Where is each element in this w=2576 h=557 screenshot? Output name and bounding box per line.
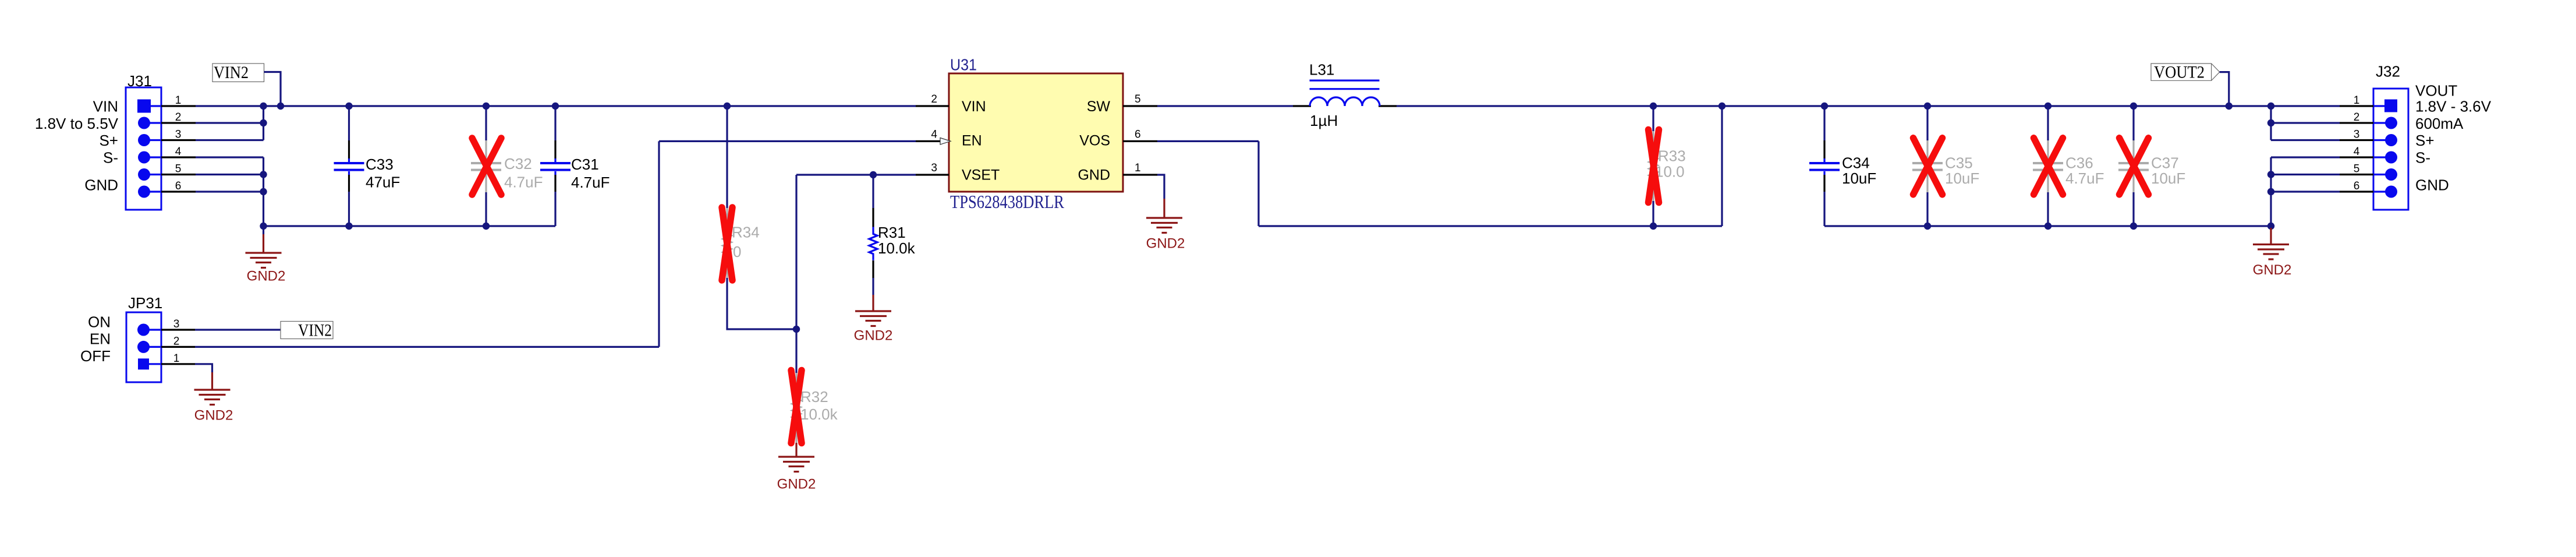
resistor R32 (DNP) bbox=[792, 373, 800, 443]
wire VOUT2 tap bbox=[2220, 72, 2229, 106]
capacitor C36 (DNP) bbox=[2033, 140, 2063, 192]
wire output ground rail bbox=[1824, 225, 2271, 227]
wire C31 bottom bbox=[554, 192, 556, 226]
svg-text:GND2: GND2 bbox=[2253, 262, 2292, 278]
junction C34 top bbox=[1821, 103, 1828, 110]
wire C34 top bbox=[1823, 106, 1825, 140]
wire R31 top bbox=[872, 175, 874, 208]
svg-text:10uF: 10uF bbox=[1945, 170, 1979, 187]
svg-text:OFF: OFF bbox=[80, 347, 111, 365]
ground GND2 (U31) bbox=[1146, 199, 1182, 233]
svg-text:6: 6 bbox=[2354, 180, 2360, 192]
connector J32 bbox=[2340, 89, 2408, 210]
junction C36 top bbox=[2044, 103, 2051, 110]
ground GND2 (R31) bbox=[855, 295, 891, 326]
svg-text:600mA: 600mA bbox=[2415, 115, 2464, 132]
wire J32 pin5 bbox=[2271, 174, 2340, 175]
svg-text:L31: L31 bbox=[1309, 61, 1334, 79]
wire J31 pins 1-2-3 tie bbox=[263, 106, 264, 140]
inductor L31 bbox=[1293, 80, 1397, 106]
wire VSET to U31 bbox=[796, 174, 916, 175]
net label VIN2 (at JP31) bbox=[281, 321, 333, 340]
svg-text:VSET: VSET bbox=[962, 167, 1000, 184]
wire J32 pin6 bbox=[2271, 191, 2340, 192]
resistor R34 (DNP) bbox=[723, 208, 731, 278]
net label VOUT2 bbox=[2151, 63, 2220, 82]
svg-text:GND2: GND2 bbox=[247, 269, 286, 284]
svg-text:4: 4 bbox=[931, 128, 937, 140]
junction C37 top bbox=[2130, 103, 2137, 110]
svg-text:2: 2 bbox=[931, 93, 937, 105]
svg-text:JP31: JP31 bbox=[128, 294, 162, 312]
J31 pin numbers bbox=[175, 94, 182, 192]
DNP cross C35 bbox=[1914, 138, 1943, 195]
svg-text:S-: S- bbox=[103, 149, 118, 167]
capacitor C37 (DNP) bbox=[2118, 140, 2149, 192]
svg-text:5: 5 bbox=[2354, 163, 2360, 175]
junction J31 pin2 tie bbox=[260, 119, 267, 126]
svg-text:GND: GND bbox=[2415, 177, 2449, 194]
junction C36 bottom bbox=[2044, 223, 2051, 230]
svg-text:C37: C37 bbox=[2151, 154, 2179, 172]
wire R32 top bbox=[795, 329, 797, 373]
junction C35 bottom bbox=[1924, 223, 1931, 230]
svg-text:4.7uF: 4.7uF bbox=[2065, 170, 2104, 187]
svg-text:2: 2 bbox=[2354, 111, 2360, 124]
junction C32 top bbox=[483, 103, 490, 110]
junction J32 pin2 tie bbox=[2267, 119, 2274, 126]
svg-text:6: 6 bbox=[175, 180, 182, 192]
svg-text:S-: S- bbox=[2415, 149, 2430, 167]
svg-text:2: 2 bbox=[175, 111, 182, 124]
junction J32 pin6 tie bbox=[2267, 188, 2274, 195]
J32 pin labels bbox=[2415, 82, 2492, 194]
svg-text:SW: SW bbox=[1087, 98, 1111, 115]
svg-text:EN: EN bbox=[90, 330, 111, 348]
DNP cross C32 bbox=[472, 138, 501, 195]
junction J32 tie at rail bbox=[2267, 103, 2274, 110]
ground GND2 (J32) bbox=[2253, 228, 2289, 259]
wire C36 top bbox=[2047, 106, 2049, 140]
connector J31 bbox=[126, 87, 196, 210]
wire J31 pin3 bbox=[196, 139, 264, 141]
wire C36 bottom bbox=[2047, 192, 2049, 226]
wire VIN rail bbox=[196, 105, 916, 107]
svg-text:GND: GND bbox=[84, 177, 118, 194]
DNP cross R32 bbox=[791, 371, 802, 443]
wire J32 pin3 bbox=[2271, 139, 2340, 141]
svg-text:6: 6 bbox=[1135, 128, 1141, 140]
wire J32 pin4 bbox=[2271, 156, 2340, 158]
svg-text:VIN2: VIN2 bbox=[298, 321, 332, 340]
svg-text:3: 3 bbox=[173, 318, 180, 330]
svg-text:U31: U31 bbox=[950, 56, 977, 74]
wire J31 pin4 bbox=[196, 156, 264, 158]
DNP cross R33 bbox=[1649, 130, 1659, 203]
wire VIN2 label tap bbox=[264, 72, 281, 107]
wire C34 bottom bbox=[1823, 192, 1825, 226]
svg-text:C31: C31 bbox=[571, 156, 599, 173]
wire C31 top bbox=[554, 106, 556, 140]
svg-text:47uF: 47uF bbox=[366, 174, 400, 191]
wire J31 pin6 bbox=[196, 191, 264, 192]
JP31 pin labels bbox=[80, 313, 111, 365]
junction input ground at J31 bbox=[260, 223, 267, 230]
net label VIN2 (input) bbox=[212, 63, 264, 82]
svg-text:1µH: 1µH bbox=[1310, 112, 1338, 129]
svg-text:ON: ON bbox=[88, 313, 111, 331]
svg-text:4: 4 bbox=[2354, 146, 2360, 158]
svg-text:GND2: GND2 bbox=[777, 477, 816, 492]
wire EN net horizontal bbox=[195, 346, 659, 348]
svg-text:3: 3 bbox=[175, 129, 182, 141]
svg-text:EN: EN bbox=[962, 133, 982, 149]
JP31 pin numbers bbox=[173, 318, 180, 365]
svg-text:C36: C36 bbox=[2065, 154, 2093, 172]
junction VSET / R34 / R32 bbox=[793, 326, 800, 333]
junction R31 top bbox=[870, 171, 877, 178]
capacitor C33 bbox=[334, 140, 364, 192]
wire JP31 pin1 to ground bbox=[195, 364, 212, 372]
ground GND2 (JP31) bbox=[194, 372, 231, 405]
wire VOUT rail bbox=[1397, 105, 2340, 107]
wire J32 pin2 bbox=[2271, 122, 2340, 124]
wire VOS rail bbox=[1259, 225, 1722, 227]
wire J32 pins 1-2-3 tie bbox=[2270, 106, 2272, 140]
svg-text:1: 1 bbox=[173, 352, 180, 365]
junction VOUT2 tap bbox=[2226, 103, 2233, 110]
wire VOS sense up bbox=[1721, 106, 1723, 226]
svg-text:10.0k: 10.0k bbox=[800, 406, 838, 423]
junction R33 top bbox=[1650, 103, 1657, 110]
svg-text:10.0: 10.0 bbox=[1655, 163, 1685, 181]
svg-text:10uF: 10uF bbox=[2151, 170, 2185, 187]
DNP cross C37 bbox=[2120, 138, 2149, 195]
svg-text:4: 4 bbox=[175, 146, 182, 158]
U31 pin numbers bbox=[931, 93, 1140, 174]
junction J31 pin5 tie bbox=[260, 171, 267, 178]
svg-text:R32: R32 bbox=[800, 388, 828, 406]
svg-text:0: 0 bbox=[733, 243, 741, 260]
svg-text:3: 3 bbox=[2354, 129, 2360, 141]
svg-text:3: 3 bbox=[931, 162, 937, 174]
wire C32 bottom bbox=[485, 192, 487, 226]
wire U31 GND pin bbox=[1157, 175, 1164, 199]
svg-text:J32: J32 bbox=[2376, 63, 2400, 80]
junction C32 bottom bbox=[483, 223, 490, 230]
capacitor C32 (DNP) bbox=[471, 140, 501, 192]
wire VOS from U31 bbox=[1157, 140, 1259, 142]
wire R34 top bbox=[726, 106, 728, 208]
U31 pin stubs bbox=[916, 106, 1157, 175]
junction C33 top bbox=[345, 103, 352, 110]
wire EN net vertical bbox=[658, 141, 660, 347]
svg-text:TPS628438DRLR: TPS628438DRLR bbox=[950, 191, 1065, 212]
svg-text:VOS: VOS bbox=[1079, 133, 1110, 149]
svg-text:R34: R34 bbox=[732, 224, 760, 241]
svg-text:GND: GND bbox=[1078, 167, 1110, 184]
svg-text:1: 1 bbox=[1135, 162, 1141, 174]
wire R34 bottom bbox=[727, 278, 796, 329]
junction J31 pin6 tie bbox=[260, 188, 267, 195]
svg-text:VIN: VIN bbox=[962, 98, 986, 115]
svg-text:J31: J31 bbox=[127, 72, 152, 90]
svg-text:10.0k: 10.0k bbox=[878, 239, 916, 257]
wire J31 pin5 bbox=[196, 174, 264, 175]
svg-text:C34: C34 bbox=[1842, 154, 1870, 172]
wire VOS vertical bbox=[1257, 141, 1259, 226]
DNP cross C36 bbox=[2034, 138, 2063, 195]
svg-text:GND2: GND2 bbox=[1146, 236, 1185, 252]
wire JP31 pin3 to VIN2 bbox=[195, 329, 281, 330]
junction R34 top bbox=[724, 103, 731, 110]
wire C35 bottom bbox=[1926, 192, 1928, 226]
svg-text:R33: R33 bbox=[1658, 147, 1686, 165]
svg-text:10uF: 10uF bbox=[1842, 170, 1876, 187]
J32 pin numbers bbox=[2354, 94, 2360, 192]
wire EN net to U31 bbox=[659, 140, 916, 142]
wire VSET vertical bbox=[795, 175, 797, 329]
wire C37 top bbox=[2132, 106, 2134, 140]
junction VIN rail / pins tie bbox=[260, 103, 267, 110]
svg-text:5: 5 bbox=[1135, 93, 1141, 105]
wire input ground rail bbox=[264, 225, 556, 227]
resistor R31 bbox=[869, 208, 877, 278]
junction VOS sense at rail bbox=[1718, 103, 1725, 110]
wire J31 pins 4-5-6 tie bbox=[263, 157, 264, 226]
svg-text:1.8V to 5.5V: 1.8V to 5.5V bbox=[35, 115, 119, 132]
svg-text:VIN2: VIN2 bbox=[214, 63, 249, 82]
svg-text:GND2: GND2 bbox=[194, 408, 233, 424]
wire R31 bottom bbox=[872, 278, 874, 295]
IC U31 body bbox=[949, 73, 1123, 192]
junction J32 ground bbox=[2267, 223, 2274, 230]
svg-text:S+: S+ bbox=[2415, 132, 2435, 149]
resistor R33 (DNP) bbox=[1649, 131, 1657, 202]
capacitor C35 (DNP) bbox=[1912, 140, 1943, 192]
svg-text:1: 1 bbox=[175, 94, 182, 107]
capacitor C31 bbox=[540, 140, 571, 192]
svg-text:C35: C35 bbox=[1945, 154, 1973, 172]
connector JP31 bbox=[126, 312, 195, 382]
wire R33 top bbox=[1652, 106, 1654, 131]
junction R33 bottom bbox=[1650, 223, 1657, 230]
svg-text:C32: C32 bbox=[504, 155, 532, 172]
wire J31 pin2 bbox=[196, 122, 264, 124]
wire C33 bottom bbox=[348, 192, 350, 226]
ground GND2 (R32) bbox=[778, 443, 814, 472]
junction J32 pin5 tie bbox=[2267, 171, 2274, 178]
svg-text:VIN: VIN bbox=[93, 98, 118, 115]
ground GND2 (J31) bbox=[246, 226, 282, 268]
wire C32 top bbox=[485, 106, 487, 140]
svg-text:4.7uF: 4.7uF bbox=[504, 174, 543, 191]
wire C33 top bbox=[348, 106, 350, 140]
svg-text:C33: C33 bbox=[366, 156, 394, 173]
svg-text:5: 5 bbox=[175, 163, 182, 175]
J31 pin labels bbox=[35, 98, 119, 194]
junction VIN2 tap bbox=[277, 103, 284, 110]
junction C33 bottom bbox=[345, 223, 352, 230]
wire C35 top bbox=[1926, 106, 1928, 140]
svg-text:4.7uF: 4.7uF bbox=[571, 174, 610, 191]
U31 pin names bbox=[962, 98, 1110, 184]
wire C37 bottom bbox=[2132, 192, 2134, 226]
capacitor C34 bbox=[1809, 140, 1840, 192]
svg-text:2: 2 bbox=[173, 335, 180, 347]
wire SW to L31 bbox=[1157, 105, 1293, 107]
junction C35 top bbox=[1924, 103, 1931, 110]
svg-text:S+: S+ bbox=[99, 132, 118, 149]
wire J32 pins 4-5-6 tie bbox=[2270, 157, 2272, 226]
wire R33 bottom bbox=[1652, 201, 1654, 226]
junction C37 bottom bbox=[2130, 223, 2137, 230]
svg-text:VOUT: VOUT bbox=[2415, 82, 2457, 100]
svg-text:VOUT2: VOUT2 bbox=[2154, 63, 2205, 82]
svg-text:R31: R31 bbox=[878, 224, 906, 241]
junction C31 top bbox=[552, 103, 559, 110]
svg-text:GND2: GND2 bbox=[854, 328, 893, 344]
DNP cross R34 bbox=[722, 207, 732, 280]
svg-text:1: 1 bbox=[2354, 94, 2360, 107]
svg-text:1.8V - 3.6V: 1.8V - 3.6V bbox=[2415, 98, 2492, 115]
